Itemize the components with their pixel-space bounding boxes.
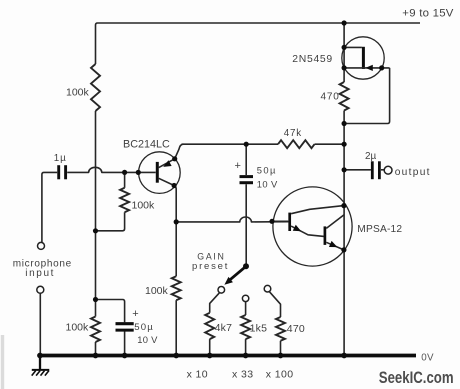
- svg-text:+: +: [132, 308, 138, 320]
- svg-text:100k: 100k: [66, 322, 90, 334]
- svg-text:2µ: 2µ: [365, 151, 376, 162]
- svg-text:+: +: [235, 160, 241, 172]
- svg-text:+9 to 15V: +9 to 15V: [402, 8, 453, 20]
- svg-text:BC214LC: BC214LC: [123, 138, 170, 150]
- svg-text:10 V: 10 V: [137, 334, 158, 345]
- svg-text:MPSA-12: MPSA-12: [357, 224, 402, 235]
- svg-text:preset: preset: [192, 261, 229, 272]
- svg-text:1µ: 1µ: [54, 153, 67, 164]
- svg-text:100k: 100k: [145, 285, 169, 297]
- svg-text:50µ: 50µ: [134, 322, 154, 333]
- svg-text:2N5459: 2N5459: [292, 54, 333, 65]
- svg-text:input: input: [25, 268, 55, 279]
- svg-text:100k: 100k: [66, 86, 90, 98]
- svg-text:SeekIC.com: SeekIC.com: [379, 369, 454, 387]
- svg-text:x 33: x 33: [232, 369, 253, 381]
- svg-text:47k: 47k: [284, 128, 302, 139]
- svg-text:470: 470: [287, 323, 305, 335]
- svg-text:4k7: 4k7: [215, 322, 233, 334]
- svg-text:1k5: 1k5: [250, 323, 268, 335]
- svg-text:output: output: [395, 167, 431, 178]
- svg-text:100k: 100k: [132, 199, 156, 211]
- svg-text:x 10: x 10: [187, 369, 208, 381]
- svg-text:50µ: 50µ: [257, 165, 277, 176]
- svg-text:x 100: x 100: [266, 369, 294, 381]
- svg-text:0V: 0V: [421, 352, 434, 363]
- svg-text:470: 470: [321, 91, 340, 102]
- svg-text:10 V: 10 V: [257, 179, 278, 190]
